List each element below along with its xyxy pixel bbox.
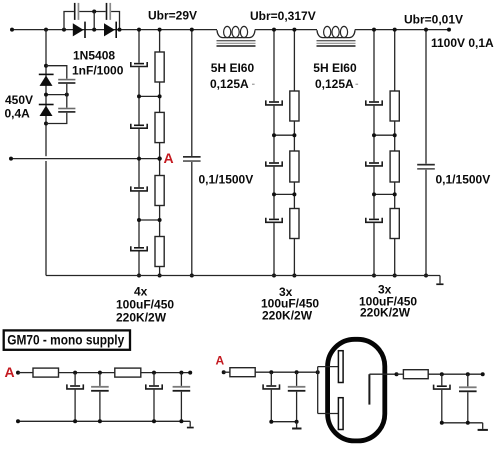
capacitor C2 snubber over D2 [106,3,111,20]
tube filament pin slot 1 [338,351,343,383]
svg-text:4x: 4x [134,285,148,299]
ground right sub output [478,423,488,431]
capacitor C22 film [288,372,306,422]
node A junction stage1 [137,156,162,160]
resistor R8 220K/2W [390,91,399,121]
wire left sub bottom rail [16,419,190,423]
capacitor C14 100uF/450 [366,161,382,166]
svg-text:GM70 - mono supply: GM70 - mono supply [7,331,124,347]
ground main [436,276,443,286]
capacitor C15 100uF/450 [366,218,382,223]
svg-text:220K/2W: 220K/2W [360,306,411,320]
capacitor C16 0,1/1500V branch [417,28,435,278]
svg-text:1N5408: 1N5408 [73,48,115,62]
resistor R9 220K/2W [390,151,399,182]
svg-text:5H EI60: 5H EI60 [313,61,357,75]
diode D2 1N5408 [104,22,117,38]
resistor R7 220K/2W [290,209,299,239]
capacitor C3 snubber over D3 [46,66,75,95]
svg-text:Ubr=0,317V: Ubr=0,317V [250,9,316,23]
svg-text:450V: 450V [5,93,33,107]
resistor R11 [33,368,59,377]
svg-text:220K/2W: 220K/2W [262,309,313,323]
choke L1 5H EI60 [217,26,256,46]
capacitor C7 100uF/450 [131,186,147,191]
svg-text:A: A [5,364,15,380]
wire stage3 junction 2 [372,192,397,196]
title box GM70 mono supply [4,330,130,349]
wire and mid node of snubber row [79,10,105,32]
capacitor C24 film [459,374,477,423]
node terminal A right sub [222,370,226,374]
capacitor C20 film [173,373,191,422]
svg-text:220K/2W: 220K/2W [116,311,167,325]
wire stage1 resistor chain [158,28,162,278]
diode D4 [39,104,54,116]
capacitor C21 electrolytic [263,372,279,422]
wire stage3 junction 1 [372,133,397,137]
wire left sub rail mid [59,371,115,375]
wire right sub output rail [428,372,485,376]
node terminal A left sub [16,371,20,375]
capacitor C10 100uF/450 [266,100,282,105]
tick after first 0,125A [252,84,255,85]
capacitor C12 100uF/450 [266,218,282,223]
svg-text:Ubr=29V: Ubr=29V [148,8,197,22]
ground right sub mid [292,422,301,430]
wire top rail right segment [355,28,451,32]
tube anode electrode [369,372,398,404]
wire left sub rail right [141,371,192,375]
svg-text:0,4A: 0,4A [5,107,31,121]
wire mid diode junction [44,93,69,97]
svg-text:A: A [216,354,225,368]
wire stage2 junction 1 [272,133,296,137]
resistor R4 220K/2W [155,237,164,267]
resistor R3 220K/2W [155,176,164,206]
capacitor C23 electrolytic [434,374,450,423]
diode D1 1N5408 [73,22,86,38]
wire top rail left segment [12,29,217,31]
svg-text:1100V 0,1A: 1100V 0,1A [431,36,494,50]
node below D4 [44,122,48,126]
wire AC input line lower [9,157,160,161]
wire right sub bottom [269,420,298,424]
capacitor C18 film [91,373,109,422]
ground left sub [187,421,194,428]
wire stage1 junction 3 [137,218,162,222]
wire left vertical branch lower [45,161,47,276]
resistor R1 220K/2W [155,52,164,82]
resistor R13 [230,368,255,377]
wire stage1 junction 1 [137,94,162,98]
choke L2 5H EI60 [317,26,356,46]
node and stub left of snubber caps [62,12,74,32]
svg-text:Ubr=0,01V: Ubr=0,01V [404,12,463,26]
capacitor C13 100uF/450 [366,100,382,105]
tube filament pin slot 2 [338,398,343,430]
capacitor C17 electrolytic [67,373,83,422]
svg-text:0,125A: 0,125A [210,77,249,91]
wire stage2 resistor chain [292,28,296,278]
wire right end of snubber row [111,12,121,32]
diode D3 [39,74,54,86]
svg-text:100uF/450: 100uF/450 [116,298,174,312]
capacitor C8 100uF/450 [131,246,147,251]
wire right sub output bottom [440,421,483,425]
svg-text:1nF/1000: 1nF/1000 [72,64,124,78]
wire right sub rail [255,370,320,374]
wire anode to R14 [397,373,404,375]
capacitor C11 100uF/450 [266,161,282,166]
node input terminal top [10,28,14,32]
capacitor C6 100uF/450 [131,124,147,129]
wire stage3 capacitor chain [372,28,376,278]
wire top rail mid segment [255,29,317,31]
wire stage3 resistor chain [393,28,397,278]
svg-text:5H EI60: 5H EI60 [211,61,255,75]
wire left vertical branch upper [45,30,47,157]
wire right sub input [224,371,230,373]
svg-text:0,1/1500V: 0,1/1500V [199,173,254,187]
wire stage2 junction 2 [272,192,296,196]
wire stage2 capacitor chain [272,28,276,278]
tube filament bus [318,367,339,414]
capacitor C1 snubber over D1 [74,3,79,20]
node rail to diode branch [44,28,48,32]
resistor R6 220K/2W [290,151,299,182]
resistor R12 [115,368,141,377]
svg-text:0,125A: 0,125A [315,77,354,91]
capacitor C5 100uF/450 [131,62,147,67]
svg-text:0,1/1500V: 0,1/1500V [436,173,491,187]
capacitor C19 electrolytic [146,373,162,422]
tick after second 0,125A [356,84,359,85]
capacitor C4 snubber over D4 [46,95,75,124]
wire left sub input [18,372,33,374]
capacitor C9 0,1/1500V branch [183,28,201,278]
resistor R2 220K/2W [155,112,164,142]
wire bottom rail [46,275,440,277]
wire stage1 capacitor chain [137,28,141,278]
tube V1 GM70 envelope [328,339,385,441]
resistor R10 220K/2W [390,209,399,239]
svg-text:A: A [164,150,174,166]
resistor R14 [403,370,428,379]
node above D3 [44,64,48,68]
resistor R5 220K/2W [290,91,299,121]
